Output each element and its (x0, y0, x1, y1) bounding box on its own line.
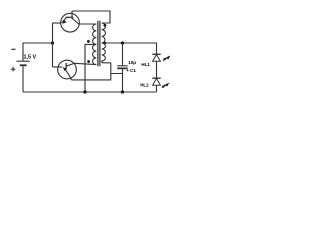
wire battery bottom down to positive bottom rail (22, 66, 24, 92)
wire to transistor Q2 base (53, 66, 63, 68)
transformer T1 polarity dot winding Ia (87, 40, 90, 43)
transistor Q2 circle (58, 60, 77, 79)
LED HL1 cathode bar (152, 53, 160, 55)
transistor Q2 base bar (65, 63, 67, 69)
transistor Q2 collector diagonal and wire to winding Ib bottom (66, 63, 96, 66)
capacitor C1 top plate (117, 65, 127, 67)
svg-text:HL1: HL1 (141, 62, 150, 67)
output rail wire y=43 to LED column (102, 43, 157, 54)
transformer T1 polarity dot winding Ib (87, 60, 90, 63)
wire vertical base bus x=52.5 (52, 23, 54, 67)
LED HL1 triangle (153, 55, 161, 62)
transistor Q1 circle (61, 13, 80, 32)
transistor Q1 collector diagonal and wire to winding Ia (71, 18, 96, 24)
wire LED HL2 to bottom rail (156, 85, 158, 92)
capacitor C1 bottom plate thick (117, 67, 127, 69)
svg-text:10µ: 10µ (128, 60, 136, 65)
transistor Q1 emitter diagonal (62, 18, 67, 23)
transistor Q1 emitter arrow (62, 20, 66, 24)
node junction dot base rail (51, 41, 54, 44)
transformer T1 core lines (98, 21, 100, 67)
bottom rail wire (positive) (23, 91, 157, 93)
battery minus label (11, 48, 15, 50)
transistor Q2 emitter diagonal (66, 70, 72, 80)
svg-text:HL2: HL2 (140, 82, 149, 87)
node junction dot capacitor bottom (121, 90, 124, 93)
transformer T1 polarity dot winding III top (104, 24, 107, 27)
LED HL2 triangle (153, 79, 161, 86)
transistor Q1 base bar (66, 16, 74, 18)
battery GB1 short thick plate (20, 64, 27, 66)
capacitor C1 top lead (122, 43, 124, 65)
transformer T1 polarity dot winding III bottom (103, 42, 106, 45)
transformer T1 winding Ia (left top) (93, 24, 97, 44)
wire top net Q1 base to winding III top (72, 11, 110, 23)
LED HL2 cathode bar (152, 77, 160, 79)
wire Q2 emitter to capacitor node with jog (71, 63, 122, 80)
battery plus label (11, 67, 16, 72)
svg-text:1,5 V: 1,5 V (24, 54, 37, 60)
wire battery top to negative rail corner (23, 43, 53, 61)
transistor Q2 emitter arrow (63, 67, 67, 71)
LED HL1 emission arrows (163, 58, 166, 61)
battery GB1 long plate (negative top terminal) (17, 60, 30, 62)
svg-text:+: + (126, 68, 129, 73)
transformer T1 winding Ib (left bottom) (93, 44, 97, 64)
transformer T1 center tap wire to bottom rail (85, 44, 96, 92)
transistor Q1 base lead up (71, 11, 73, 17)
wire LED HL1 to HL2 (156, 61, 158, 78)
wire to transistor Q1 left lead (53, 22, 62, 24)
capacitor C1 bottom lead to rail (122, 69, 124, 92)
node junction dot capacitor top (121, 41, 124, 44)
svg-text:C1: C1 (130, 68, 136, 73)
node junction dot tap to rail (83, 90, 86, 93)
LED HL2 emission arrows (162, 85, 165, 88)
transformer T1 winding III (right) (102, 23, 111, 63)
